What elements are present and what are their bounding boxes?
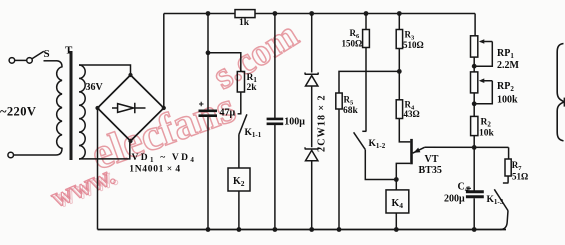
wire R6 upper	[365, 14, 367, 30]
transformer T primary winding	[56, 61, 62, 155]
svg-text:43Ω: 43Ω	[404, 109, 420, 119]
wire RP2 to R2	[473, 93, 475, 117]
wire K1-3 to bottom bus	[500, 211, 508, 230]
svg-text:2CW18 × 2: 2CW18 × 2	[317, 94, 328, 152]
wire emitter node to R7	[508, 147, 510, 159]
wire 47u to bottom bus	[207, 117, 209, 230]
svg-text:S: S	[44, 48, 50, 60]
resistor R2	[471, 116, 478, 135]
resistor R4	[396, 100, 402, 119]
svg-text:K1-3: K1-3	[487, 195, 504, 206]
zener diode VS2	[305, 147, 319, 160]
svg-text:VD1 ~ VD4: VD1 ~ VD4	[132, 153, 197, 164]
svg-text:BT35: BT35	[419, 165, 442, 176]
transformer core	[70, 51, 73, 160]
svg-text:2.2M: 2.2M	[497, 60, 520, 71]
RP2 wiper	[474, 81, 492, 104]
wire zener branch upper	[311, 14, 313, 75]
resistor R3	[396, 30, 402, 49]
bridge inner diode	[112, 103, 146, 113]
wire R5 to bottom bus	[338, 109, 340, 230]
node R1 tap	[206, 50, 211, 55]
wire R7 to K1-3 contact	[507, 176, 509, 183]
capacitor 100u	[267, 119, 284, 124]
svg-text:68k: 68k	[343, 106, 359, 116]
wire K1-1 to K2	[238, 135, 240, 169]
UJT emitter arrow	[414, 148, 421, 153]
switch K1-1 blade	[239, 114, 247, 134]
node bridge top corner	[128, 73, 132, 77]
svg-text:R2: R2	[481, 118, 492, 129]
svg-text:2k: 2k	[247, 83, 258, 93]
wire K4 to bottom bus	[395, 213, 397, 230]
zener diode VS1	[305, 73, 319, 87]
node bridge left corner	[95, 106, 99, 110]
svg-text:K4: K4	[392, 198, 404, 210]
contact tick K1-1	[238, 113, 242, 115]
transformer secondary winding	[79, 65, 85, 159]
svg-text:~220V: ~220V	[0, 105, 36, 119]
transistor VT BT35 (UJT) base bar	[410, 139, 413, 164]
svg-text:200μ: 200μ	[444, 194, 465, 205]
svg-text:100μ: 100μ	[284, 117, 305, 128]
svg-text:1k: 1k	[239, 18, 250, 28]
svg-text:47μ: 47μ	[220, 108, 236, 119]
node bottom bus R5	[337, 227, 342, 232]
wire zener to bottom bus	[311, 161, 313, 230]
node RP2 bottom	[472, 101, 477, 106]
svg-text:K1-1: K1-1	[245, 128, 262, 139]
svg-text:51Ω: 51Ω	[512, 172, 528, 182]
wire R3 upper	[398, 14, 400, 30]
wire R4 to UJT B2	[399, 119, 410, 142]
wire secondary top to bridge	[79, 65, 131, 75]
resistor R7	[505, 159, 511, 176]
svg-text:C4: C4	[458, 182, 469, 194]
wire 100u upper	[274, 14, 276, 119]
wire RP1 to RP2	[473, 57, 475, 72]
node emitter/R2/C4	[472, 145, 477, 150]
wire R3 to R4	[398, 49, 400, 100]
node bottom bus zener	[309, 227, 314, 232]
relay coil K2	[228, 168, 250, 191]
node top bus / 47u branch	[206, 11, 211, 16]
svg-text:1N4001 × 4: 1N4001 × 4	[129, 165, 181, 175]
wire top bus (right of 1k)	[255, 13, 475, 15]
resistor 1k	[235, 10, 255, 18]
wire R2 to emitter node	[473, 136, 475, 148]
terminal N (AC input bottom)	[8, 152, 14, 158]
wire bottom terminal to primary	[14, 154, 57, 156]
svg-text:RP1: RP1	[497, 48, 514, 60]
UJT emitter	[413, 147, 425, 153]
switch K1-2 blade	[354, 132, 366, 149]
wire to 47u cap	[207, 53, 209, 110]
wire bottom bus	[98, 229, 507, 231]
node top bus zener	[309, 11, 314, 16]
resistor R6	[363, 30, 370, 48]
wire top bus corner down to RP1	[474, 14, 476, 36]
svg-text:R5: R5	[344, 95, 355, 107]
node bottom bus 100u	[273, 227, 278, 232]
watermark www.elecfans.com	[47, 13, 306, 215]
wire C4 to bottom bus	[473, 198, 475, 229]
node B1/K4 junction	[394, 177, 399, 182]
switch K1-3 blade	[494, 189, 508, 210]
RP1 wiper	[474, 42, 492, 67]
svg-text:K1-2: K1-2	[369, 139, 386, 150]
svg-text:VT: VT	[425, 154, 439, 165]
node R3/R4 junction	[397, 69, 402, 74]
wire 47u branch upper	[207, 14, 209, 53]
wire junction to R5	[339, 71, 399, 93]
wire secondary bottom to bridge bottom corner	[79, 142, 130, 159]
wire K1-2 to node B1	[365, 150, 396, 180]
polarity + of 47u	[199, 102, 204, 107]
node top bus R3	[397, 11, 402, 16]
brace (output marker)	[557, 44, 564, 141]
wire switch to primary	[44, 60, 57, 62]
svg-text:RP2: RP2	[497, 81, 514, 93]
svg-text:K2: K2	[233, 176, 245, 188]
wire terminal-to-terminal	[15, 59, 27, 61]
terminal L (AC input top)	[9, 58, 15, 64]
UJT B1 wire	[396, 163, 410, 179]
switch S blade	[32, 51, 44, 58]
node bridge bottom corner	[128, 139, 132, 143]
wire tap to R1	[208, 53, 241, 72]
wire node to C4	[473, 147, 475, 190]
potentiometer RP1	[471, 36, 478, 57]
wire between zeners	[311, 86, 313, 149]
wire R1 to K1-1 contact	[240, 92, 242, 114]
node RP1 bottom	[472, 64, 477, 69]
capacitor C4	[466, 192, 484, 197]
resistor R5	[336, 93, 342, 109]
svg-text:36V: 36V	[86, 82, 104, 93]
svg-text:150Ω: 150Ω	[342, 38, 363, 48]
wire 100u to bottom bus	[274, 125, 276, 230]
resistor R1	[237, 72, 244, 93]
svg-text:510Ω: 510Ω	[403, 40, 424, 50]
potentiometer RP2	[471, 72, 478, 93]
relay coil K4	[386, 190, 409, 213]
node top bus R6	[364, 11, 369, 16]
wire bridge right corner to top bus	[163, 14, 165, 109]
wire emitter to R2/C4 node	[425, 146, 509, 148]
wire K2 to bottom bus	[238, 191, 240, 230]
contact tick K1-2	[362, 130, 366, 132]
svg-text:R7: R7	[512, 160, 523, 172]
node bottom bus C4	[472, 227, 477, 232]
svg-text:T: T	[65, 45, 73, 57]
svg-text:100k: 100k	[497, 95, 518, 106]
partial letter at edge	[564, 98, 565, 107]
terminal (switch pole)	[27, 58, 33, 64]
node top bus 100u	[273, 11, 278, 16]
svg-text:10k: 10k	[479, 129, 495, 139]
node bridge right corner	[162, 106, 166, 110]
node bottom bus K4	[394, 227, 399, 232]
contact tick K1-3	[503, 182, 509, 184]
node bottom bus 47u	[206, 227, 211, 232]
node bottom bus K2	[237, 227, 242, 232]
wire top bus (left of 1k)	[164, 13, 235, 15]
capacitor 47u	[199, 111, 218, 116]
bridge rectifier diamond	[98, 75, 164, 141]
wire node to K4	[395, 180, 397, 190]
wire R6 to K1-2 contact	[365, 48, 367, 132]
wire bridge left corner to bottom bus	[97, 108, 99, 230]
